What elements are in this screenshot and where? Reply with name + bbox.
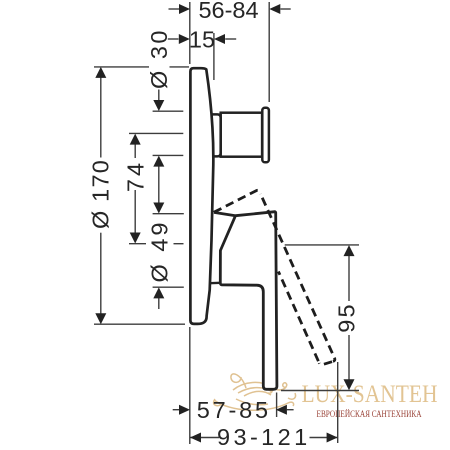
arrows (filled) <box>95 4 354 443</box>
dim Ø170 ext bottom <box>94 323 185 325</box>
svg-text:Ø 30: Ø 30 <box>146 28 172 89</box>
dimension style <box>94 2 359 444</box>
svg-text:Ø 49: Ø 49 <box>147 220 173 283</box>
diverter barrel (cylinder) <box>221 113 262 157</box>
dim Ø49 bottom stem <box>158 298 160 310</box>
dashed long lower edge <box>278 272 319 364</box>
15 left arrow <box>179 34 190 44</box>
dim 93-121 line <box>190 437 219 439</box>
svg-text:74: 74 <box>123 160 149 192</box>
svg-text:57-85: 57-85 <box>197 397 271 423</box>
watermark ornament swirl <box>214 374 296 410</box>
svg-text:95: 95 <box>333 302 359 333</box>
Ø49 bottom arrow <box>153 287 164 298</box>
ext line lever tip (x=276.5) <box>276 393 278 418</box>
svg-text:LUX-SANTEH: LUX-SANTEH <box>302 379 438 408</box>
ext line cap end (x=269) <box>268 2 270 102</box>
boss-to-flange tick <box>210 282 221 285</box>
dim 74 ext lines <box>129 132 183 134</box>
Ø49 top arrow <box>153 203 164 214</box>
svg-text:93-121: 93-121 <box>217 424 311 450</box>
dim Ø49 ext lines <box>153 213 184 215</box>
lever handle (dashed, raised position) <box>214 190 335 364</box>
dim 95 line <box>348 256 350 301</box>
dim Ø170 line <box>100 78 102 158</box>
diverter end cap <box>262 108 269 163</box>
dim 95 ext lines <box>285 244 359 246</box>
Ø170 bottom arrow <box>95 313 106 324</box>
56-84 left arrow <box>179 4 190 14</box>
93-121 left arrow <box>190 433 201 443</box>
dim Ø30 stems <box>158 90 160 101</box>
56-84 right arrow <box>269 4 280 14</box>
15 right arrow <box>214 34 225 44</box>
dim Ø170 ext top <box>94 66 149 68</box>
ext line flange front (x=214) <box>213 33 215 80</box>
dim 56-84 tails <box>169 8 180 10</box>
dashed tip edge <box>319 361 333 364</box>
svg-text:15: 15 <box>189 27 215 53</box>
dashed long upper edge <box>261 194 335 361</box>
ext line dashed tip (x=338) <box>337 362 339 443</box>
dim Ø30 ext lines <box>153 110 184 112</box>
57-85 right arrow <box>276 405 287 415</box>
escutcheon flange side profile <box>190 68 213 324</box>
57-85 left arrow <box>179 405 190 415</box>
Ø170 top arrow <box>95 67 106 78</box>
dimension texts <box>88 0 360 450</box>
Ø30 top arrow <box>153 100 164 111</box>
74 bottom arrow <box>130 233 141 244</box>
dim 15 tails <box>168 38 179 40</box>
dim 74 line <box>134 144 136 158</box>
svg-text:Ø 170: Ø 170 <box>88 159 114 229</box>
svg-text:ЕВРОПЕЙСКАЯ САНТЕХНИКА: ЕВРОПЕЙСКАЯ САНТЕХНИКА <box>317 409 422 419</box>
95 top arrow <box>344 245 355 256</box>
ext line wall face (x=190) bottom <box>189 327 191 444</box>
dashed upper-left edge <box>214 190 261 212</box>
handle sleeve (adapter) <box>212 114 221 156</box>
ext line wall face (x=190) top <box>189 2 191 64</box>
74 top arrow <box>130 134 141 145</box>
95 bottom arrow <box>344 379 355 390</box>
93-121 right arrow <box>327 433 338 443</box>
svg-text:56-84: 56-84 <box>198 0 258 23</box>
lever handle body + bar (solid, down position) <box>214 212 277 390</box>
dim 57-85 tails <box>173 409 180 411</box>
Ø30 bottom arrow <box>153 156 164 167</box>
